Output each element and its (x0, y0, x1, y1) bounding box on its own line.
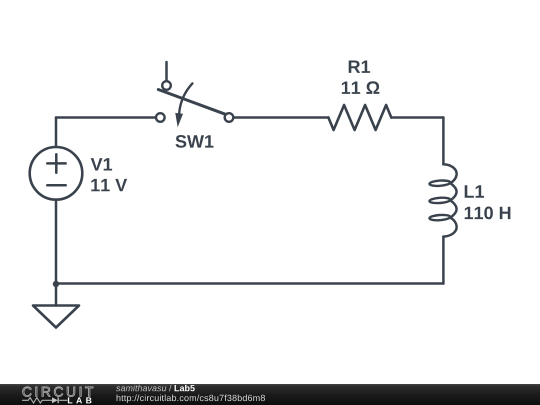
inductor L1 loop 2 (429, 197, 450, 204)
inductor L1 loop 1 (429, 180, 450, 187)
switch SW1 blade (158, 90, 225, 115)
V1 minus sign (47, 184, 65, 187)
inductor L1 bump 1 (450, 183, 456, 200)
label L1 name (465, 185, 484, 197)
wire bottom horizontal (56, 282, 443, 285)
logo diode bar (57, 397, 59, 403)
switch SW1 arrowhead (175, 113, 183, 127)
label R1 value (342, 81, 380, 94)
voltage source V1 circle (30, 147, 83, 200)
resistor R1 zigzag (328, 105, 391, 130)
wire right vertical upper (442, 118, 445, 165)
ground stub (55, 284, 58, 306)
V1 plus sign (47, 154, 65, 173)
inductor L1 bump 2 (450, 200, 456, 217)
label SW1 name (176, 135, 214, 148)
switch SW1 motion arc (179, 83, 192, 113)
wire resistor to top-right corner (391, 116, 443, 119)
logo CIRCUIT text (23, 387, 94, 397)
logo diode triangle (52, 397, 58, 403)
logo squiggle wire (22, 398, 68, 403)
wire switch to resistor (233, 116, 328, 119)
switch SW1 left terminal circle (156, 113, 165, 122)
label V1 value (91, 179, 127, 191)
wire left vertical upper (55, 118, 58, 148)
label V1 name (91, 158, 112, 170)
switch SW1 top stub (165, 62, 168, 81)
label R1 name (349, 61, 370, 73)
switch SW1 top terminal circle (162, 81, 171, 90)
footer url (117, 395, 265, 403)
ground triangle (33, 306, 79, 328)
footer author bold (175, 385, 195, 392)
inductor L1 loop 3 (429, 214, 450, 221)
inductor L1 top hook (443, 164, 456, 183)
wire left vertical lower (55, 200, 58, 284)
switch SW1 right terminal circle (225, 113, 234, 122)
logo LAB text (68, 397, 92, 403)
label L1 value (465, 207, 511, 220)
inductor L1 bottom hook (443, 218, 456, 237)
wire top-left horizontal (56, 116, 156, 119)
junction node dot (53, 281, 59, 287)
footer author gray (116, 385, 172, 392)
wire right vertical lower (442, 237, 445, 284)
